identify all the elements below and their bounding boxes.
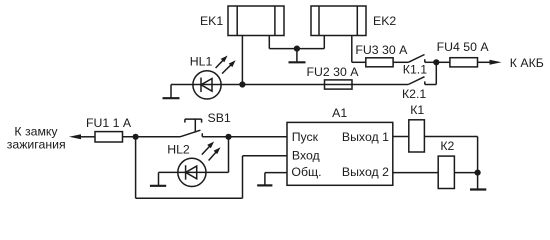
- svg-text:SB1: SB1: [208, 111, 231, 125]
- svg-text:FU4 50 А: FU4 50 А: [437, 40, 490, 54]
- svg-text:Выход 2: Выход 2: [342, 165, 389, 179]
- relay contact K2.1: [408, 77, 436, 85]
- heating element EK1: [228, 6, 284, 36]
- ground at HL2: [150, 172, 166, 185]
- wire EK1 right pin down: [268, 36, 270, 49]
- wire HL2 right up to node: [206, 171, 229, 173]
- wire FU1 branch down and to A1 Vhod: [136, 137, 287, 199]
- svg-text:К АКБ: К АКБ: [510, 56, 544, 70]
- svg-text:Выход 1: Выход 1: [342, 130, 389, 144]
- node junction EK link: [294, 46, 300, 52]
- relay coil K1: [409, 120, 425, 152]
- svg-text:FU3 30 А: FU3 30 А: [355, 43, 408, 57]
- svg-text:Вход: Вход: [292, 148, 320, 162]
- node junction K2/rail: [475, 170, 481, 176]
- LED HL2: [178, 158, 206, 186]
- svg-text:К замку: К замку: [14, 124, 58, 138]
- wire HL1 left: [171, 84, 193, 86]
- wire EK1-EK2 link: [269, 48, 324, 50]
- wire FU3 to contact K1.1: [393, 61, 408, 63]
- node junction before FU4: [433, 59, 439, 65]
- relay contact K1.1: [408, 55, 436, 63]
- svg-text:К2.1: К2.1: [402, 87, 426, 101]
- wire EK2 right pin down: [351, 36, 353, 63]
- HL1 arrows: [216, 56, 236, 74]
- svg-text:EK2: EK2: [373, 14, 396, 28]
- wire main rail: [221, 84, 408, 86]
- wire FU1 to SB1: [123, 136, 181, 138]
- svg-text:К1.1: К1.1: [403, 63, 427, 77]
- svg-text:К1: К1: [410, 103, 424, 117]
- wire Vyhod1 to K1: [393, 136, 409, 138]
- svg-text:FU2 30 А: FU2 30 А: [307, 65, 360, 79]
- fuse FU1: [95, 132, 123, 142]
- relay coil K2: [438, 156, 454, 188]
- wire arrow to FU1: [81, 136, 95, 138]
- wire to FU3: [352, 61, 366, 63]
- control unit A1: [287, 122, 393, 185]
- svg-text:зажигания: зажигания: [7, 137, 66, 151]
- wire node to FU4: [436, 61, 450, 63]
- wire Obshch to ground: [257, 173, 287, 186]
- svg-text:FU1 1 А: FU1 1 А: [86, 116, 132, 130]
- wire right rail down: [477, 137, 479, 189]
- svg-text:Общ.: Общ.: [291, 165, 321, 179]
- wire K1 to right rail: [424, 136, 477, 138]
- wire HL2 left: [159, 171, 178, 173]
- svg-text:А1: А1: [332, 106, 347, 120]
- fuse FU4: [450, 58, 478, 67]
- wire Vyhod2 to K2: [393, 172, 438, 174]
- ground at right rail: [470, 188, 486, 190]
- svg-text:К2: К2: [440, 139, 454, 153]
- node junction EK1/main rail: [239, 81, 245, 87]
- arrow to battery: [490, 60, 502, 65]
- svg-text:HL2: HL2: [167, 142, 190, 156]
- ground under EK link: [289, 49, 306, 63]
- svg-text:Пуск: Пуск: [292, 130, 319, 144]
- wire K2.1 up to node: [435, 62, 437, 84]
- fuse FU2: [325, 80, 353, 89]
- LED HL1: [193, 71, 221, 99]
- arrow to ignition lock: [69, 134, 81, 139]
- fuse FU3: [366, 58, 393, 67]
- wire EK2 left pin down: [323, 36, 325, 49]
- wire EK1 left pin down to main rail: [241, 36, 243, 85]
- node junction SB1/HL2: [225, 134, 231, 140]
- wire SB1 to A1 Pusk: [202, 136, 287, 138]
- HL2 arrows: [202, 142, 221, 161]
- node junction FU1 branch: [133, 134, 139, 140]
- svg-text:HL1: HL1: [190, 55, 213, 69]
- heating element EK2: [311, 6, 366, 36]
- ground at HL1: [163, 85, 180, 99]
- wire K2 to rail node: [454, 172, 477, 174]
- push button SB1: [180, 119, 202, 137]
- svg-text:EK1: EK1: [200, 14, 223, 28]
- wire FU4 to battery arrow: [478, 61, 491, 63]
